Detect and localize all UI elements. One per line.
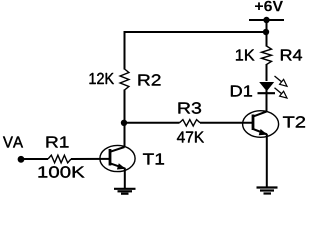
wire R3 to T2 base — [200, 122, 253, 124]
junction node top wire — [263, 29, 269, 35]
LED D1 triangle — [259, 82, 274, 91]
label D1 — [231, 86, 252, 97]
value 100K — [39, 166, 85, 177]
transistor T2 — [243, 111, 279, 138]
label R1 — [47, 137, 69, 148]
wire R2 to junction — [124, 90, 126, 125]
node VA label — [3, 137, 23, 148]
LED light arrow 2 — [275, 88, 288, 98]
resistor R3 — [180, 120, 201, 126]
node +6V label — [255, 1, 283, 12]
wire T2 emitter to ground — [266, 134, 268, 188]
LED light arrow 1 — [275, 76, 288, 86]
label R4 — [281, 50, 302, 61]
power rail +6V — [249, 19, 284, 21]
value 1K — [236, 50, 255, 61]
transistor T1 — [100, 145, 135, 171]
wire T1 collector — [124, 123, 126, 147]
label R2 — [139, 74, 161, 85]
ground T2 — [257, 188, 278, 194]
wire down to R2 — [124, 31, 126, 70]
resistor R2 — [120, 69, 129, 90]
label T1 — [143, 154, 164, 165]
value 12K — [90, 73, 115, 84]
wire R4 to D1 — [266, 64, 268, 81]
junction on +6V rail — [263, 17, 269, 23]
resistor R4 — [262, 46, 272, 65]
wire VA to R1 — [21, 158, 48, 160]
wire D1 to T2 collector — [266, 90, 268, 112]
junction node collector T1 — [121, 120, 127, 126]
LED D1 cathode bar — [258, 92, 276, 94]
node VA terminal dot — [18, 156, 25, 163]
wire R1 to T1 base — [71, 158, 110, 160]
ground T1 — [114, 189, 136, 194]
wire rail to R4 — [266, 20, 268, 47]
wire T1 emitter to ground — [124, 168, 126, 189]
resistor R1 — [48, 155, 71, 163]
label R3 — [179, 102, 202, 113]
value 47K — [177, 132, 204, 143]
wire top horizontal — [124, 31, 267, 33]
label T2 — [283, 116, 305, 127]
wire junction to R3 — [124, 122, 180, 124]
